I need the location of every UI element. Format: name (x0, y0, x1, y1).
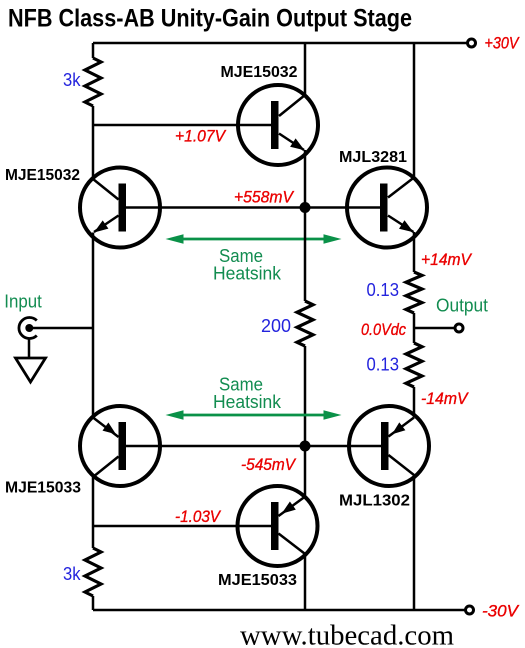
wire input to rail (31, 327, 93, 330)
svg-text:3k: 3k (63, 70, 81, 90)
wire +558mV row (124, 206, 383, 209)
wire right rail to output node (413, 313, 416, 343)
svg-text:Input: Input (4, 292, 42, 312)
svg-text:0.0Vdc: 0.0Vdc (361, 320, 406, 339)
wire bottom rail (93, 609, 465, 612)
svg-text:-30V: -30V (482, 602, 520, 621)
terminal Output (455, 324, 463, 332)
svg-text:Heatsink: Heatsink (213, 392, 282, 412)
svg-text:MJE15033: MJE15033 (218, 572, 297, 589)
ground (16, 358, 46, 382)
transistor Q2 MJE15032 (left upper, NPN) (5, 167, 160, 248)
wire output tap (414, 327, 455, 330)
node junction +558mV (300, 202, 311, 213)
wire left rail middle (92, 233, 95, 418)
transistor Q3 MJE15033 (left lower, PNP) (5, 406, 160, 497)
svg-text:MJE15033: MJE15033 (5, 480, 81, 497)
terminal -30V (466, 606, 474, 614)
wire base of Q6 (-1.03V node) (93, 525, 272, 528)
svg-text:MJL3281: MJL3281 (339, 149, 407, 166)
input jack (19, 317, 37, 338)
svg-text:+30V: +30V (485, 34, 520, 53)
svg-text:Heatsink: Heatsink (213, 264, 282, 284)
wire top rail (93, 42, 467, 45)
svg-text:-545mV: -545mV (241, 455, 297, 474)
svg-text:0.13: 0.13 (367, 355, 400, 375)
green arrow 1 (180, 238, 327, 241)
resistor R1 3k (85, 58, 101, 106)
wire right rail below R4 (413, 387, 416, 417)
transistor Q4 MJL3281 (right upper, NPN) (339, 43, 427, 248)
green arrow 2 (180, 414, 327, 417)
wire -545mV row (124, 445, 385, 448)
resistor R4 0.13 (406, 343, 422, 387)
wire right rail from Q4 emitter (413, 232, 416, 272)
svg-text:+1.07V: +1.07V (175, 127, 227, 146)
svg-text:www.tubecad.com: www.tubecad.com (240, 620, 454, 648)
node junction -545mV (300, 441, 311, 452)
wire base of Q1 (+1.07V node) (93, 124, 272, 127)
svg-text:200: 200 (261, 316, 291, 336)
svg-text:MJE15032: MJE15032 (221, 64, 298, 81)
resistor R5 3k (85, 548, 101, 596)
svg-text:+14mV: +14mV (421, 250, 473, 269)
wire input to ground (28, 339, 31, 358)
wire left rail upper (92, 43, 95, 58)
resistor R3 0.13 (406, 272, 422, 313)
svg-text:NFB Class-AB Unity-Gain Output: NFB Class-AB Unity-Gain Output Stage (8, 5, 412, 33)
svg-text:MJE15032: MJE15032 (5, 167, 80, 184)
wire left rail lower (92, 477, 95, 548)
resistor R2 200 (297, 301, 313, 346)
svg-text:Output: Output (436, 296, 488, 316)
wire middle rail below R2 (304, 346, 307, 446)
svg-text:3k: 3k (63, 564, 81, 584)
transistor Q6 MJE15033 (bottom driver, PNP) (218, 446, 318, 610)
svg-text:-14mV: -14mV (421, 389, 469, 408)
svg-text:0.13: 0.13 (367, 280, 400, 300)
wire left rail bottom (92, 596, 95, 610)
wire middle rail above R2 (304, 208, 307, 302)
svg-text:-1.03V: -1.03V (175, 507, 221, 526)
transistor Q5 MJL1302 (right lower, PNP) (339, 406, 429, 610)
transistor Q1 MJE15032 (top driver, NPN) (221, 43, 319, 208)
terminal +30V (468, 39, 476, 47)
svg-text:+558mV: +558mV (234, 188, 295, 207)
wire left rail below R1 (92, 106, 95, 179)
svg-text:MJL1302: MJL1302 (339, 493, 410, 510)
